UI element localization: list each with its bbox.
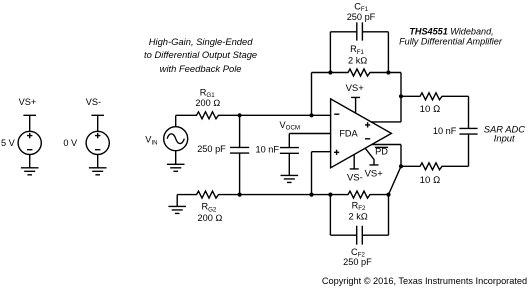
svg-text:250 pF: 250 pF (197, 144, 226, 154)
svg-text:10 Ω: 10 Ω (420, 175, 441, 186)
svg-text:10 nF: 10 nF (433, 126, 457, 136)
svg-text:Fully Differential Amplifier: Fully Differential Amplifier (399, 37, 503, 47)
svg-text:Copyright © 2016, Texas Instru: Copyright © 2016, Texas Instruments Inco… (322, 276, 527, 286)
svg-text:250 pF: 250 pF (343, 257, 372, 267)
svg-text:to Differential Output Stage: to Differential Output Stage (144, 49, 257, 60)
svg-text:VS+: VS+ (346, 83, 365, 94)
svg-text:200 Ω: 200 Ω (198, 213, 223, 223)
svg-text:0 V: 0 V (63, 138, 78, 148)
svg-text:2 kΩ: 2 kΩ (349, 212, 368, 222)
svg-text:5 V: 5 V (1, 138, 16, 148)
svg-text:VS-: VS- (347, 172, 363, 183)
svg-text:250 pF: 250 pF (347, 12, 376, 22)
svg-text:RF1: RF1 (350, 44, 364, 56)
svg-text:2 kΩ: 2 kΩ (348, 56, 367, 66)
svg-text:VS+: VS+ (365, 168, 384, 179)
svg-text:PD: PD (375, 147, 388, 157)
svg-text:RF2: RF2 (352, 201, 366, 213)
svg-text:FDA: FDA (339, 129, 358, 139)
svg-text:Input: Input (494, 133, 515, 144)
svg-text:10 nF: 10 nF (256, 144, 280, 154)
svg-text:10 Ω: 10 Ω (420, 104, 441, 115)
svg-text:VS+: VS+ (19, 97, 37, 107)
svg-text:200 Ω: 200 Ω (195, 98, 220, 108)
svg-text:VIN: VIN (145, 135, 157, 147)
svg-text:VS-: VS- (86, 97, 101, 107)
svg-text:with Feedback Pole: with Feedback Pole (160, 63, 242, 74)
svg-text:High-Gain, Single-Ended: High-Gain, Single-Ended (149, 36, 253, 47)
svg-text:THS4551 Wideband,: THS4551 Wideband, (409, 27, 493, 37)
svg-text:RG2: RG2 (201, 202, 216, 214)
svg-text:VOCM: VOCM (280, 120, 301, 132)
